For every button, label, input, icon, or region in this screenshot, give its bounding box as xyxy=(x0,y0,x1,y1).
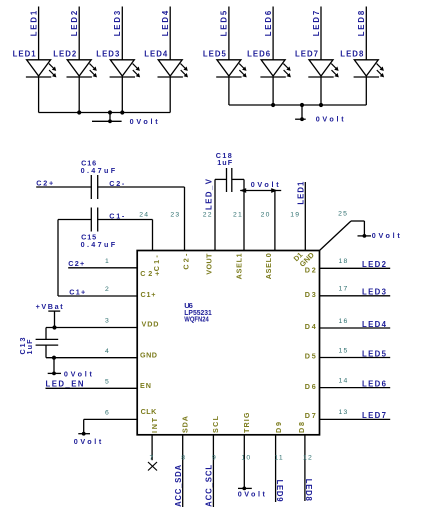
node C2+ (net label, wire to C16 left plate) xyxy=(36,178,91,187)
pin 22 VOUT / net LED_V xyxy=(203,178,215,274)
node C1- (wire C15 right plate to pin 24) xyxy=(98,211,153,220)
svg-text:5: 5 xyxy=(105,379,110,386)
svg-text:LED7: LED7 xyxy=(295,50,318,59)
svg-text:ASEL1: ASEL1 xyxy=(235,253,244,279)
svg-text:ASEL0: ASEL0 xyxy=(264,253,273,279)
LED LED4 xyxy=(144,7,188,113)
wire: left cathode bus xyxy=(39,112,171,114)
svg-text:18: 18 xyxy=(339,258,349,265)
svg-text:LED3: LED3 xyxy=(113,10,122,36)
node C2- (wire C16 right plate to pin 23) xyxy=(98,179,185,188)
wire C15 left plate down to pin 2 (net C1+) xyxy=(58,220,91,297)
svg-text:GND: GND xyxy=(140,350,157,359)
svg-text:LED2: LED2 xyxy=(362,260,387,269)
pin 6 CLK xyxy=(84,407,157,420)
svg-text:LED3: LED3 xyxy=(362,288,387,297)
svg-text:22: 22 xyxy=(203,212,213,219)
svg-text:11: 11 xyxy=(274,455,283,462)
svg-text:LED1: LED1 xyxy=(29,10,38,36)
junction gnd tap/right bus xyxy=(300,103,304,107)
svg-text:TRIG: TRIG xyxy=(242,412,251,433)
svg-text:12: 12 xyxy=(303,455,313,462)
svg-text:C1+: C1+ xyxy=(141,290,156,299)
svg-text:LED6: LED6 xyxy=(264,10,273,36)
pin 21 ASEL1 xyxy=(233,179,244,279)
svg-text:21: 21 xyxy=(233,212,243,219)
svg-text:WQFN24: WQFN24 xyxy=(184,315,209,324)
power flag 0Volt at ASEL1/ASEL0 xyxy=(240,180,281,193)
svg-text:LED6: LED6 xyxy=(362,379,387,388)
pin 4 GND xyxy=(46,348,157,359)
pin 23 C2- xyxy=(170,187,190,270)
pin 12 D8 / net LED8 xyxy=(297,422,313,501)
pin 11 D9 / net LED9 xyxy=(274,422,284,502)
svg-text:23: 23 xyxy=(170,212,180,219)
ground 0Volt (right LED bus) xyxy=(295,105,344,123)
svg-text:C2+: C2+ xyxy=(68,259,84,268)
svg-text:SDA: SDA xyxy=(180,416,189,433)
svg-text:CLK: CLK xyxy=(141,407,157,416)
svg-text:LED5: LED5 xyxy=(362,349,387,358)
svg-text:LED2: LED2 xyxy=(53,50,77,59)
svg-text:LED5: LED5 xyxy=(220,10,229,36)
pin 15 D5 / net LED5 xyxy=(305,347,390,360)
svg-text:C2+: C2+ xyxy=(36,178,53,187)
svg-text:LED6: LED6 xyxy=(247,50,271,59)
junction LED7/bus xyxy=(319,103,323,107)
svg-text:9: 9 xyxy=(212,455,217,462)
svg-text:LED2: LED2 xyxy=(70,10,79,36)
junction gnd tap/left bus xyxy=(108,110,112,114)
svg-text:4: 4 xyxy=(105,348,110,355)
pin 1 C2+ xyxy=(68,258,159,278)
svg-text:VOUT: VOUT xyxy=(205,253,214,275)
junction LED3/bus xyxy=(120,110,124,114)
svg-text:LED9: LED9 xyxy=(275,480,284,503)
pin 16 D4 / net LED4 xyxy=(305,318,390,331)
svg-text:17: 17 xyxy=(339,286,349,293)
svg-text:LED_EN: LED_EN xyxy=(46,380,84,389)
svg-text:25: 25 xyxy=(338,211,348,218)
svg-text:LED1: LED1 xyxy=(13,50,37,59)
svg-text:LED3: LED3 xyxy=(96,50,120,59)
svg-text:15: 15 xyxy=(339,347,349,354)
svg-text:3: 3 xyxy=(105,318,110,325)
ground 0Volt (pin 25) xyxy=(358,221,401,240)
pin 7 INT (no connect) xyxy=(148,417,159,470)
svg-text:LED4: LED4 xyxy=(161,10,170,36)
svg-text:LED7: LED7 xyxy=(312,11,321,37)
pin 19 D1 / net LED1 xyxy=(290,181,305,263)
svg-text:2: 2 xyxy=(105,286,110,293)
LED LED6 xyxy=(247,7,291,106)
capacitor C15 0.47uF xyxy=(81,208,116,250)
svg-text:6: 6 xyxy=(105,409,110,416)
LED LED5 xyxy=(203,7,247,106)
junction LED6/bus xyxy=(271,103,275,107)
svg-text:13: 13 xyxy=(339,409,349,416)
svg-text:20: 20 xyxy=(261,212,271,219)
pin 24 C1- xyxy=(139,212,161,272)
svg-text:8: 8 xyxy=(181,455,186,462)
op-amp/IC U6 LP55231 WQFN24 body xyxy=(137,251,319,435)
pin 20 ASEL0 xyxy=(261,191,275,280)
svg-text:LED8: LED8 xyxy=(304,479,313,502)
LED LED8 xyxy=(340,7,384,106)
svg-text:7: 7 xyxy=(150,455,155,462)
pin 9 SCL / net ACC_SCL xyxy=(205,415,220,507)
ground 0Volt (TRIG) xyxy=(238,487,266,499)
pin 14 D6 / net LED6 xyxy=(305,377,390,391)
svg-text:19: 19 xyxy=(290,212,300,219)
svg-text:LED4: LED4 xyxy=(144,50,168,59)
svg-text:LED8: LED8 xyxy=(340,50,364,59)
LED LED1 xyxy=(13,7,57,113)
svg-text:1uF: 1uF xyxy=(217,158,233,167)
ground 0Volt (C13 / pin 4) xyxy=(48,356,93,379)
svg-text:1uF: 1uF xyxy=(25,339,34,355)
svg-text:SCL: SCL xyxy=(211,415,220,433)
svg-text:C2-: C2- xyxy=(182,253,191,270)
LED LED3 xyxy=(96,7,140,113)
pin 17 D3 / net LED3 xyxy=(305,286,390,299)
LED LED2 xyxy=(53,7,97,113)
svg-text:VDD: VDD xyxy=(142,319,159,328)
wire: right cathode bus xyxy=(229,104,366,106)
svg-text:LED8: LED8 xyxy=(357,10,366,36)
svg-text:C1-: C1- xyxy=(152,255,161,272)
pin 18 D2 / net LED2 xyxy=(305,258,390,275)
svg-text:LED1: LED1 xyxy=(296,181,305,205)
svg-text:EN: EN xyxy=(140,381,151,390)
svg-text:LED7: LED7 xyxy=(362,411,386,420)
svg-text:16: 16 xyxy=(339,318,349,325)
capacitor C18 1uF xyxy=(215,151,244,192)
pin 2 C1+ xyxy=(58,286,156,299)
pin 8 SDA / net ACC_SDA xyxy=(174,416,189,507)
power +VBat xyxy=(36,302,64,330)
svg-text:C1+: C1+ xyxy=(69,287,85,296)
pin 3 VDD xyxy=(46,318,159,329)
svg-text:1: 1 xyxy=(105,258,110,265)
pin 5 EN / net LED_EN xyxy=(46,379,152,390)
svg-text:LED5: LED5 xyxy=(203,50,227,59)
junction LED2/bus xyxy=(77,110,81,114)
svg-text:ACC_SDA: ACC_SDA xyxy=(174,465,183,507)
pin 13 D7 / net LED7 xyxy=(305,409,390,420)
capacitor C13 1uF xyxy=(18,328,58,358)
pin 25 GND (corner) xyxy=(298,211,365,269)
capacitor C16 0.47uF xyxy=(81,159,116,200)
LED LED7 xyxy=(295,7,339,106)
svg-text:10: 10 xyxy=(241,455,251,462)
svg-text:24: 24 xyxy=(139,212,149,219)
svg-text:14: 14 xyxy=(339,377,349,384)
svg-text:LED4: LED4 xyxy=(362,320,387,329)
pin 10 TRIG xyxy=(241,412,251,488)
ground 0Volt (left LED bus) xyxy=(92,113,158,126)
ground 0Volt (CLK) xyxy=(74,419,102,446)
svg-text:ACC_SCL: ACC_SCL xyxy=(205,465,214,507)
